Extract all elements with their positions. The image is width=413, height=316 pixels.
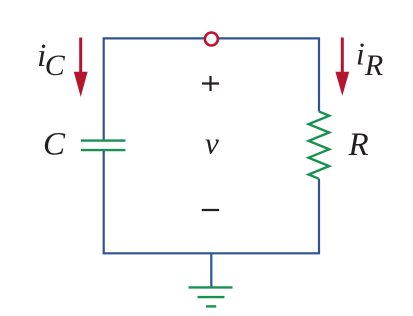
svg-text:i: i (356, 36, 365, 72)
svg-text:C: C (43, 127, 66, 163)
svg-text:C: C (45, 49, 66, 82)
svg-text:R: R (364, 49, 383, 82)
svg-text:R: R (348, 127, 369, 163)
svg-text:v: v (205, 126, 219, 161)
